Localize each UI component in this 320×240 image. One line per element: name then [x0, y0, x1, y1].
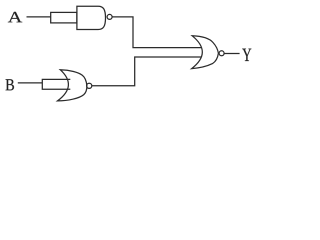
wire to output Y [224, 53, 240, 55]
wire NAND output, corner, to final gate upper input [112, 17, 201, 48]
output label Y [242, 49, 251, 61]
nor-gate U3 (output) body: back arc, top curve, bottom curve [192, 36, 219, 69]
bubble of NOR U2 [87, 83, 92, 88]
wire NOR U2 output, corner, to final gate lower input [92, 57, 202, 86]
input label A [8, 12, 22, 22]
wire B to input box [18, 82, 43, 84]
bubble of NAND U1 [107, 14, 112, 19]
nand-gate U1 body [77, 6, 106, 29]
input label B [6, 79, 14, 90]
bubble of NOR U3 [219, 51, 224, 56]
tied-input box of NOR U2 [42, 79, 70, 89]
nor-gate U2 body: back arc, top curve, bottom curve [58, 70, 87, 101]
tied-input box of NAND U1 [51, 12, 77, 23]
wire A to input box [27, 16, 51, 18]
